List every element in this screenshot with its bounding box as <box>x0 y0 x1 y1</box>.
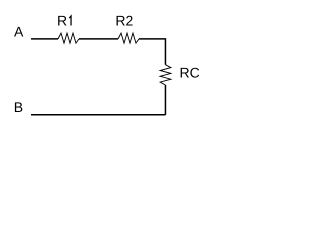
svg-text:A: A <box>14 24 24 40</box>
resistor RC <box>160 65 171 85</box>
wire R2 to top-right corner and down to RC <box>139 39 165 65</box>
wire RC down to bottom-right corner <box>164 85 166 115</box>
wire A to R1 <box>31 38 58 40</box>
wire B bottom <box>31 114 165 116</box>
svg-text:B: B <box>14 99 23 115</box>
wire R1 to R2 <box>79 38 118 40</box>
svg-text:RC: RC <box>180 65 200 81</box>
svg-text:R: R <box>57 13 67 29</box>
digit 1 of R1 <box>69 16 71 26</box>
svg-text:R2: R2 <box>115 13 133 29</box>
resistor R1 <box>58 33 79 43</box>
resistor R2 <box>118 33 139 43</box>
